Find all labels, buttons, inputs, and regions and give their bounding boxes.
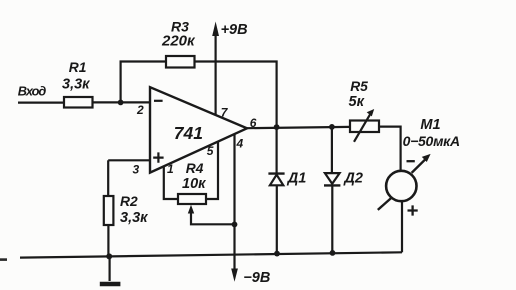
svg-text:3,3к: 3,3к <box>120 210 148 226</box>
svg-text:4: 4 <box>236 136 244 150</box>
wire pin 5 to R4 <box>206 142 218 199</box>
op-amp plus sign <box>153 152 163 162</box>
ground <box>100 282 121 287</box>
wire bottom rail <box>20 252 402 257</box>
wire meter bottom <box>401 201 403 252</box>
wire input <box>18 101 64 103</box>
wire pin 1 to R4 <box>164 166 178 199</box>
svg-text:R5: R5 <box>350 79 368 94</box>
wire R2 top <box>107 160 109 196</box>
node output-D2 junction <box>329 124 335 130</box>
svg-text:R2: R2 <box>120 194 138 209</box>
wire feedback left vertical <box>121 62 166 103</box>
meter M1 needle arrow <box>378 154 431 210</box>
resistor R3 <box>166 56 195 68</box>
wire feedback right <box>195 62 277 128</box>
svg-text:7: 7 <box>221 105 229 119</box>
svg-text:220к: 220к <box>161 32 196 49</box>
wire R5 to meter corner <box>379 127 401 171</box>
op-amp minus sign <box>154 100 163 102</box>
wire pin 4 / -9V <box>233 134 235 274</box>
diode D2 <box>324 173 340 185</box>
potentiometer R4 <box>178 194 206 204</box>
meter plus sign <box>408 205 418 215</box>
meter minus sign <box>407 160 415 162</box>
wire diode D1 branch top <box>276 127 278 172</box>
potentiometer R4 wiper arrowhead <box>188 205 194 214</box>
resistor R1 <box>64 97 93 108</box>
svg-text:3,3к: 3,3к <box>62 76 90 92</box>
svg-text:10к: 10к <box>182 176 206 192</box>
svg-text:Вход: Вход <box>18 84 47 99</box>
wire R2 bottom <box>107 225 109 257</box>
-9V arrowhead <box>231 269 238 282</box>
wire pin 3 input <box>108 159 150 161</box>
svg-text:+9В: +9В <box>221 22 248 38</box>
svg-text:Д2: Д2 <box>342 170 363 186</box>
wire output <box>247 127 350 128</box>
meter M1 circle <box>386 171 416 201</box>
svg-text:Д1: Д1 <box>286 170 307 186</box>
+9V arrowhead <box>212 22 219 37</box>
svg-text:6: 6 <box>250 116 257 130</box>
node input-R1 junction <box>118 100 124 106</box>
resistor R2 <box>104 196 114 225</box>
wire ground stem <box>108 256 110 281</box>
wire R1 to op-amp pin 2 <box>93 101 150 103</box>
node wiper to pin4 junction <box>232 222 238 228</box>
diode D1 <box>268 174 284 186</box>
wire diode D2 branch bottom <box>331 185 333 253</box>
svg-text:0−50мкА: 0−50мкА <box>403 133 461 149</box>
svg-text:R4: R4 <box>186 161 204 176</box>
svg-text:М1: М1 <box>420 117 440 133</box>
svg-text:−9В: −9В <box>243 270 270 286</box>
node R2-ground rail junction <box>106 253 112 259</box>
variable resistor R5 arrow <box>354 109 374 142</box>
svg-text:5к: 5к <box>349 94 365 110</box>
scan artifact left edge <box>0 258 7 261</box>
node D2-rail junction <box>330 250 336 256</box>
node output-feedback junction <box>274 124 280 130</box>
svg-text:741: 741 <box>174 123 203 143</box>
node D1-rail junction <box>274 251 280 257</box>
variable resistor R5 <box>350 121 379 133</box>
svg-text:2: 2 <box>136 103 144 117</box>
wire diode D2 branch top <box>331 127 333 173</box>
svg-text:3: 3 <box>133 162 140 176</box>
wire R4 wiper <box>191 211 235 224</box>
op-amp U1 741 <box>150 87 247 172</box>
svg-text:1: 1 <box>167 162 174 176</box>
wire +9V supply to pin 7 <box>215 34 217 115</box>
wire diode D1 branch bottom <box>276 185 278 253</box>
svg-text:5: 5 <box>207 144 214 158</box>
svg-text:R1: R1 <box>69 60 87 75</box>
